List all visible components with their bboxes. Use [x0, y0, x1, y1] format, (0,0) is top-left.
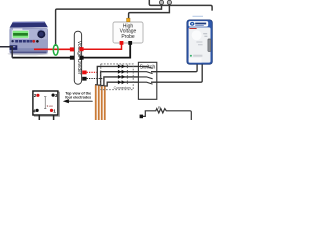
switch arm row 1	[138, 66, 152, 68]
dimension line 3 cm between electrodes 2 and 4	[44, 97, 46, 109]
electrode 4 (orange rod)	[104, 86, 106, 120]
wire: black from VD to probe black terminal	[83, 44, 130, 57]
connector plug pair row 4	[118, 80, 122, 84]
faint blue mark above instrument	[193, 15, 204, 18]
wire: electrode 1 lead below square	[53, 115, 55, 120]
wire: black dotted from VD right mid to electrode riser 2	[87, 78, 104, 80]
wire: HV tap riser from red lead junction up and right to terminal box circle 1	[56, 5, 162, 47]
terminal: probe top yellow	[127, 18, 130, 22]
node: electrode 4 dot (black)	[36, 109, 39, 112]
node: green oval junction marker on red lead	[53, 45, 58, 55]
svg-text:four electrodes: four electrodes	[65, 95, 91, 99]
wire: red from VD to probe red terminal	[83, 44, 121, 49]
svg-text:Probe: Probe	[121, 34, 135, 40]
terminal: VD left red input	[70, 47, 74, 51]
wire: red dotted from VD right mid to electrode riser 1	[87, 71, 98, 73]
wire: row 2 electrode 2 to switch	[99, 72, 139, 86]
wire: switch output B to instrument (row4)	[151, 64, 202, 82]
electrode square (top view)	[33, 91, 60, 116]
connector plug pair row 3	[118, 75, 122, 79]
connector plug pair row 1	[118, 64, 122, 68]
terminal: VD left black input	[70, 56, 74, 60]
arrow pointing to electrode square	[67, 100, 93, 102]
wire: row 3 electrode 3 to switch	[102, 77, 139, 87]
high voltage probe box U2	[113, 22, 143, 43]
wire: electrode 4 lead below square	[38, 115, 40, 120]
switch arm row 2	[138, 72, 152, 74]
node: electrode 3 dot (black)	[52, 94, 55, 97]
wire: black lead from power supply to voltage divider (lower)	[12, 57, 71, 59]
electrode 1 (orange rod)	[95, 85, 97, 120]
svg-text:Switch: Switch	[139, 65, 155, 71]
switch box S1	[138, 62, 156, 99]
svg-text:2: 2	[34, 93, 37, 98]
terminal circle 2	[167, 0, 171, 4]
terminal circle 1	[159, 0, 163, 4]
power supply PS1 (bench photo style)	[8, 22, 49, 56]
switch arm row 3	[138, 77, 152, 79]
svg-text:3 cm: 3 cm	[47, 104, 54, 108]
resistor R	[142, 106, 192, 120]
svg-text:1: 1	[53, 108, 56, 113]
voltage divider VD1 (vertical pill)	[74, 31, 82, 84]
terminal: VD right black mid	[82, 77, 86, 81]
svg-text:4: 4	[33, 108, 36, 113]
wire: switch output A to instrument (row2)	[151, 64, 197, 72]
node: electrode 1 dot (red)	[50, 109, 53, 112]
node: electrode 2 dot (red)	[36, 94, 39, 97]
wire: row 4 electrode 4 to switch	[105, 82, 139, 87]
terminal: VD right red mid	[82, 71, 86, 75]
wire: row 1 electrode 1 to switch	[96, 66, 139, 85]
switch arm row 4	[138, 82, 152, 84]
terminal: VD right red upper	[79, 47, 83, 51]
terminal: probe bottom black	[128, 41, 132, 45]
terminal: probe bottom red	[120, 41, 124, 45]
terminal: resistor lead black plug	[140, 115, 143, 119]
measuring instrument M1 (blue handheld)	[187, 20, 212, 64]
wire: from terminal circle 2 down, left and down to high voltage probe top	[129, 5, 170, 19]
electrode 3 (orange rod)	[101, 86, 103, 120]
svg-text:Connectors: Connectors	[114, 86, 132, 90]
terminal: VD right black upper	[79, 56, 83, 60]
electrode 2 (orange rod)	[98, 86, 100, 120]
wire: mains cord from left edge into power supply	[0, 47, 12, 58]
terminal box (cut off at top edge)	[149, 0, 212, 11]
connector plug pair row 2	[118, 70, 122, 74]
connectors dashed box	[101, 64, 133, 90]
svg-text:3: 3	[55, 93, 58, 98]
wire: red lead from power supply to voltage divider	[34, 48, 72, 50]
